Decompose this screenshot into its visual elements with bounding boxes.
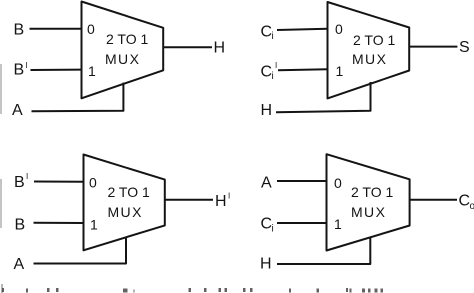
svg-text:C: C bbox=[261, 63, 273, 80]
svg-text:MUX: MUX bbox=[108, 204, 143, 220]
svg-text:C: C bbox=[459, 192, 471, 209]
svg-text:A: A bbox=[14, 256, 25, 273]
svg-text:H: H bbox=[260, 255, 272, 272]
svg-text:o: o bbox=[470, 201, 474, 212]
svg-text:0: 0 bbox=[334, 175, 342, 191]
svg-text:S: S bbox=[459, 39, 470, 56]
svg-text:1: 1 bbox=[336, 63, 344, 79]
svg-text:B: B bbox=[14, 22, 25, 39]
svg-text:1: 1 bbox=[90, 216, 98, 232]
svg-text:i: i bbox=[272, 224, 274, 235]
svg-text:I: I bbox=[228, 192, 230, 201]
svg-text:0: 0 bbox=[87, 21, 95, 37]
svg-text:B: B bbox=[15, 216, 26, 233]
svg-text:0: 0 bbox=[89, 175, 97, 191]
svg-text:A: A bbox=[261, 175, 272, 192]
svg-text:MUX: MUX bbox=[352, 51, 387, 67]
svg-text:I: I bbox=[25, 61, 27, 70]
svg-text:C: C bbox=[261, 23, 273, 40]
svg-text:1: 1 bbox=[88, 63, 96, 79]
svg-text:B: B bbox=[14, 62, 25, 79]
svg-text:I: I bbox=[26, 172, 28, 181]
svg-text:A: A bbox=[12, 102, 23, 119]
svg-text:i: i bbox=[272, 31, 274, 42]
svg-text:B: B bbox=[14, 174, 25, 191]
svg-text:2 TO 1: 2 TO 1 bbox=[106, 31, 149, 47]
svg-text:C: C bbox=[261, 216, 273, 233]
svg-text:2 TO 1: 2 TO 1 bbox=[108, 184, 151, 200]
svg-text:i: i bbox=[272, 71, 274, 82]
svg-text:I: I bbox=[275, 61, 277, 70]
svg-text:H: H bbox=[215, 193, 227, 210]
svg-text:1: 1 bbox=[334, 216, 342, 232]
svg-text:H: H bbox=[261, 102, 273, 119]
svg-text:0: 0 bbox=[335, 21, 343, 37]
svg-text:2 TO 1: 2 TO 1 bbox=[351, 184, 394, 200]
svg-text:2 TO 1: 2 TO 1 bbox=[353, 32, 396, 48]
svg-text:MUX: MUX bbox=[105, 51, 140, 67]
svg-text:MUX: MUX bbox=[351, 204, 386, 220]
svg-text:H: H bbox=[214, 40, 226, 57]
